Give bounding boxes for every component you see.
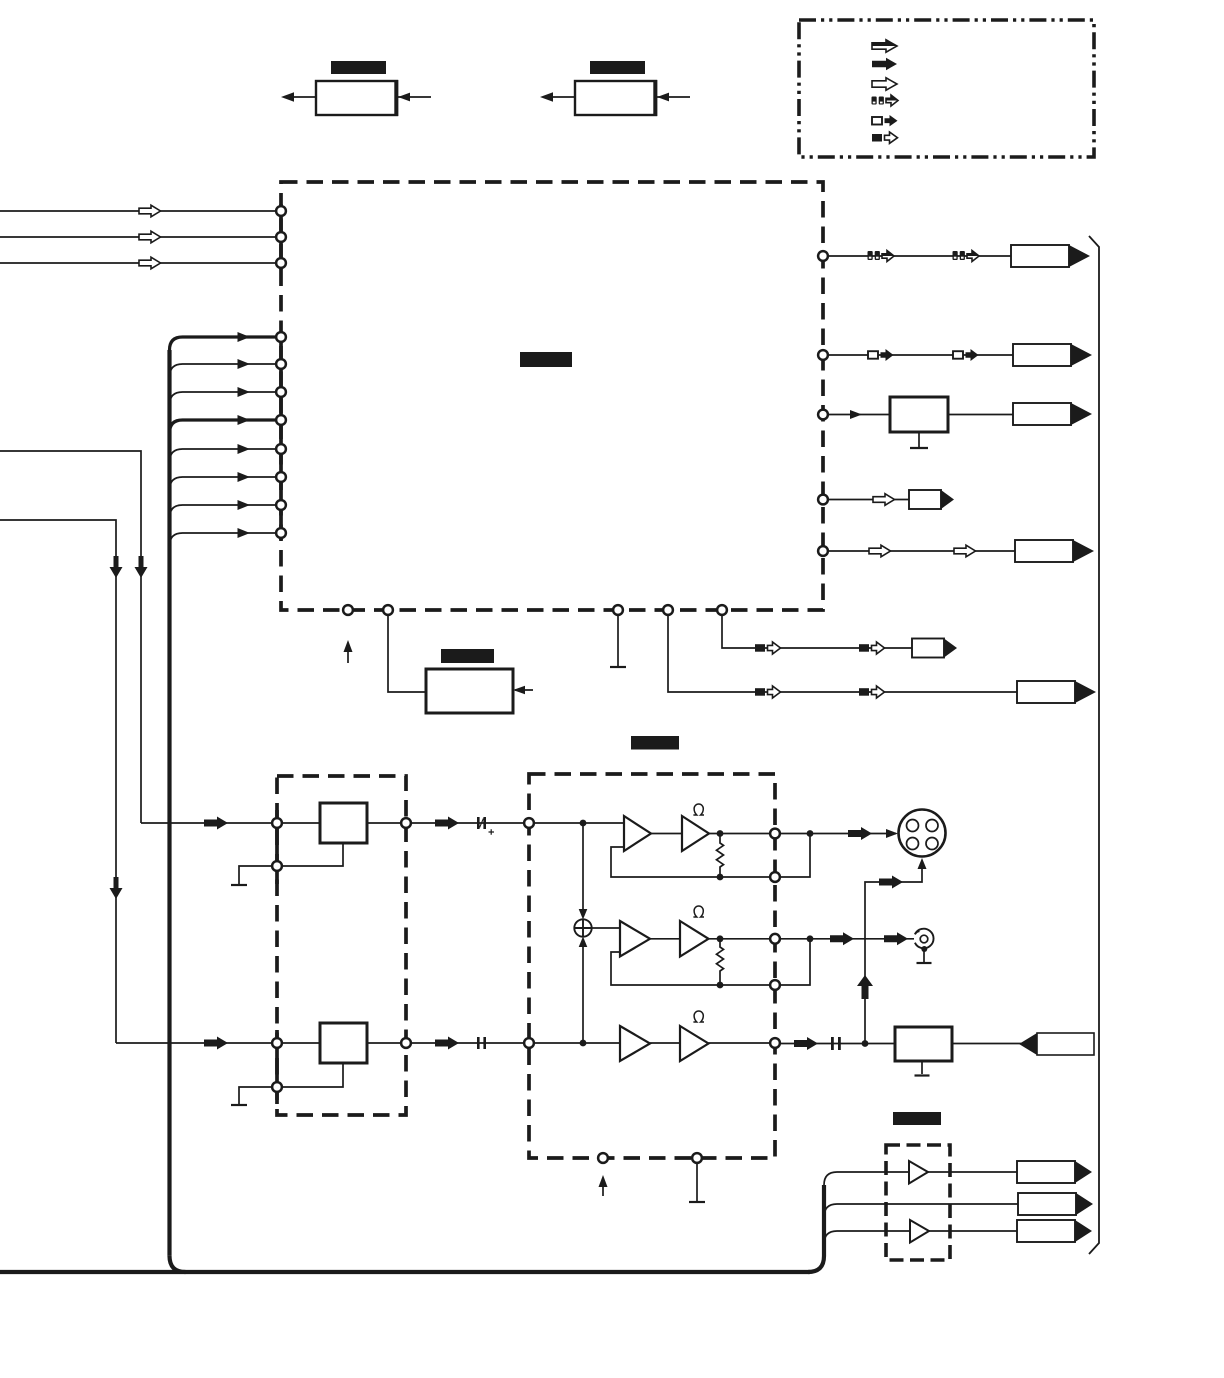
R input wire inside U3 — [534, 1042, 620, 1044]
wire from R line up into speaker connector — [857, 858, 927, 1044]
wire out left of CN-B — [540, 92, 575, 101]
node U1 pin B4 — [663, 605, 673, 615]
summing node — [574, 919, 591, 936]
ohm label top — [693, 804, 704, 815]
bus corner left — [170, 1256, 186, 1272]
branch 1 to video amp — [824, 1172, 909, 1185]
ground under muting box — [915, 1061, 930, 1076]
amp A5 — [620, 1026, 650, 1061]
wire feedback port joins — [780, 834, 810, 878]
right run 4 — [828, 499, 909, 501]
node U1 pin B1 — [343, 605, 353, 615]
branch 3 to video amp — [824, 1231, 910, 1244]
wire from left edge down to DAC R input — [0, 520, 116, 1043]
node U2 pin Rch in — [272, 1038, 282, 1048]
node U1 pin R5 — [818, 546, 828, 556]
arrow into clock box right — [513, 686, 533, 695]
label bar above connector CN-A — [331, 61, 386, 74]
down arrow on wire — [135, 556, 148, 578]
summing wire from R — [582, 940, 584, 1043]
down arrow 2 on wire — [110, 877, 123, 899]
open arrow on input wire 3 — [139, 257, 161, 269]
amp A2 second stage — [682, 816, 709, 851]
node U1 pin L9 — [276, 472, 286, 482]
node U1 pin L1 — [276, 206, 286, 216]
node U3 pin Cout — [770, 934, 780, 944]
wire summer to A3 — [592, 927, 620, 929]
junction dot center — [807, 935, 814, 942]
node U3 pin Lfb — [770, 872, 780, 882]
wire DAC R out — [367, 1042, 401, 1044]
capacitor C3 — [831, 1037, 841, 1050]
wire A3 to A4 — [650, 938, 680, 940]
wire into DAC R with thick arrow — [116, 1037, 272, 1050]
L input wire inside U3 — [534, 822, 624, 824]
main IC dashed block U1 — [281, 182, 823, 610]
connector CN-A — [316, 80, 397, 116]
coupling wire DAC L to amp — [411, 817, 523, 830]
input wire 2 — [0, 236, 276, 238]
node U1 pin L10 — [276, 500, 286, 510]
bus corner right up — [808, 1185, 824, 1272]
node U3 pin Lout — [770, 829, 780, 839]
wire A7 to jack — [928, 1171, 1017, 1173]
feedback resistor R2 — [717, 935, 724, 988]
input wire 1 — [0, 210, 276, 212]
output jack J2 — [1013, 344, 1092, 366]
DAC dashed block U2 — [277, 776, 406, 1115]
node U1 pin L6 — [276, 387, 286, 397]
legend arrow solid (signal) — [872, 58, 897, 70]
wire buffer to jack J3 — [948, 414, 1013, 416]
junction dot L — [580, 820, 587, 827]
DAC R block — [320, 1023, 367, 1063]
arrowhead into buffer box — [850, 410, 862, 419]
wire DAC R ref to ground — [231, 1063, 343, 1105]
label bar above connector CN-B — [590, 61, 645, 74]
clock box — [426, 669, 513, 713]
node U2 pin Rch ref — [272, 1082, 282, 1092]
wire feedback port joins center — [780, 939, 810, 985]
bus branch 7 — [170, 500, 276, 518]
U3 bottom stub to ground — [689, 1164, 705, 1203]
node U1 pin R1 — [818, 251, 828, 261]
phones jack connector pointing left — [1019, 1033, 1094, 1055]
legend symbol digital pair squares + open arrow — [872, 95, 899, 106]
right run 5 — [828, 550, 1015, 552]
node U1 pin L7 — [276, 415, 286, 425]
wire A8 to jack — [929, 1230, 1017, 1232]
feedback wire to A1 — [611, 847, 720, 877]
wire into CN-A right — [398, 93, 431, 102]
node U1 pin B3 — [613, 605, 623, 615]
node U3 pin Ben — [598, 1153, 608, 1163]
wire out left of CN-A — [281, 92, 316, 101]
wire port to run y648 — [722, 616, 912, 649]
wire A5 to A6 — [650, 1042, 680, 1044]
wire port to run y692 — [668, 616, 1017, 693]
wire DAC L ref to ground — [231, 843, 343, 885]
bus branch 6 — [170, 472, 276, 490]
open arrow on run 4 — [873, 494, 895, 506]
node U1 pin R3 — [818, 410, 828, 420]
bus branch 4 (thick) — [170, 415, 276, 433]
bottom bus horizontal — [0, 1270, 810, 1274]
right run 3 — [828, 414, 890, 416]
amp A3 first stage center — [620, 921, 650, 957]
wire DAC L in — [282, 822, 320, 824]
label bar video amp — [893, 1112, 941, 1125]
summing wire from L — [582, 823, 584, 916]
wire from left edge down to DAC L input — [0, 451, 141, 823]
legend arrow open (control signal) — [872, 78, 897, 90]
amp A6 — [680, 1026, 709, 1061]
amp A1 first stage — [624, 816, 651, 851]
symbol open rect solid arrow a — [868, 349, 894, 361]
bus branch 3 — [170, 387, 276, 405]
output jack J8 — [1017, 1161, 1092, 1183]
node U1 pin B2 — [383, 605, 393, 615]
legend symbol open rect + solid arrow — [872, 115, 898, 126]
left bus vertical — [167, 350, 171, 1256]
video amp A8 — [910, 1220, 929, 1243]
input wire 3 — [0, 262, 276, 264]
node U1 pin L8 — [276, 444, 286, 454]
feedback tap wire to port — [720, 876, 770, 878]
digital symbol on run 1 a — [868, 251, 895, 262]
wire A6 out to port — [709, 1042, 770, 1044]
open arrow on run 5 b — [954, 545, 976, 557]
RCA jack — [915, 929, 934, 963]
feedback tap wire to port center — [720, 984, 770, 986]
wire amp out to speaker connector — [780, 827, 898, 840]
node U1 pin L2 — [276, 232, 286, 242]
junction dot — [807, 830, 814, 837]
legend arrow half-filled (audio signal) — [872, 40, 897, 52]
node U1 pin L3 — [276, 258, 286, 268]
branch 2 passthrough — [824, 1204, 1018, 1217]
open arrow on input wire 1 — [139, 205, 161, 217]
connector CN-B — [575, 80, 656, 116]
video amp A7 — [909, 1161, 928, 1184]
node U2 pin Rch out — [401, 1038, 411, 1048]
bottom port stub with up arrow — [344, 640, 353, 663]
node U3 pin Bgnd — [692, 1153, 702, 1163]
buffer box — [890, 397, 948, 432]
bus branch 1 (thick) — [170, 332, 276, 350]
output jack J4 small — [909, 490, 954, 509]
coupling wire DAC R to amp — [411, 1037, 523, 1050]
feedback resistor R1 — [717, 830, 724, 880]
node U3 pin Cfb — [770, 980, 780, 990]
output jack J5 — [1015, 540, 1094, 562]
wire muting box to phones jack — [952, 1043, 1037, 1045]
headphone amp dashed block U3 — [529, 774, 775, 1158]
node U3 pin Lin — [524, 818, 534, 828]
rear panel bracket — [1089, 236, 1099, 1254]
wire A1 to A2 — [651, 833, 682, 835]
symbol black rect open arrow run692 b — [859, 686, 885, 698]
digital symbol on run 1 b — [953, 251, 980, 262]
bus branch 5 — [170, 444, 276, 462]
wire A2 out to port — [709, 833, 770, 835]
junction dot R — [580, 1040, 587, 1047]
muting box — [895, 1027, 952, 1061]
symbol black rect open arrow run692 a — [755, 686, 781, 698]
node U1 pin L11 — [276, 528, 286, 538]
node U2 pin Lch in — [272, 818, 282, 828]
feedback wire to A3 — [611, 952, 720, 985]
wire center port to RCA jack — [780, 932, 914, 945]
wire into CN-B right — [657, 93, 690, 102]
symbol black rect open arrow run648 b — [859, 642, 885, 654]
DAC L block — [320, 803, 367, 843]
legend symbol black rect + open arrow — [872, 132, 898, 143]
node U1 pin L5 — [276, 359, 286, 369]
label bar inside U1 — [520, 352, 572, 367]
capacitor C1 polarized — [477, 817, 494, 835]
output jack J10 — [1017, 1220, 1092, 1242]
output jack J1 — [1011, 245, 1090, 267]
video amp dashed block U4 — [886, 1145, 950, 1260]
down arrowhead into summer — [579, 909, 588, 920]
terminator stub below U1 — [610, 616, 626, 668]
label bar headphone amp — [631, 736, 679, 750]
U3 bottom stub with up arrow — [599, 1175, 608, 1196]
legend box border — [799, 20, 1094, 157]
wire port to clock box — [388, 616, 426, 693]
wire A4 out to port — [709, 938, 770, 940]
node U1 pin R4 — [818, 495, 828, 505]
symbol open rect solid arrow b — [953, 349, 979, 361]
bus branch 8 — [170, 528, 276, 546]
node U2 pin Lch out — [401, 818, 411, 828]
output jack J9 — [1018, 1193, 1093, 1215]
left edge solid joins — [279, 204, 283, 270]
ground under buffer box — [910, 432, 928, 448]
node U3 pin Rin — [524, 1038, 534, 1048]
open arrow on run 5 a — [869, 545, 891, 557]
wire R port to phones jack — [780, 1037, 895, 1050]
DAC left edge solid joins — [275, 810, 279, 884]
bus branch 2 — [170, 359, 276, 377]
wire into DAC L with thick arrow — [141, 817, 272, 830]
up arrowhead into summer — [579, 937, 588, 948]
symbol black rect open arrow run648 a — [755, 642, 781, 654]
node U1 pin L4 — [276, 332, 286, 342]
output jack J6 — [1017, 681, 1096, 703]
right run 1: digital out — [828, 255, 1011, 257]
node U2 pin Lch ref — [272, 861, 282, 871]
capacitor C2 — [477, 1037, 486, 1049]
node U1 pin R2 — [818, 350, 828, 360]
output jack J7 small — [912, 639, 957, 658]
output jack J3 — [1013, 403, 1092, 425]
down arrow on wire — [110, 556, 123, 578]
speaker connector 4pin — [899, 810, 946, 857]
ohm label bottom — [693, 1011, 704, 1022]
ohm label center — [693, 906, 704, 917]
wire DAC L out — [367, 822, 401, 824]
open arrow on input wire 2 — [139, 231, 161, 243]
label bar above clock box — [441, 649, 494, 663]
node U3 pin Rout — [770, 1038, 780, 1048]
right run 2 — [828, 354, 1013, 356]
junction dot phones — [862, 1040, 869, 1047]
node U1 pin B5 — [717, 605, 727, 615]
amp A4 second stage center — [680, 921, 709, 957]
wire DAC R in — [282, 1042, 320, 1044]
